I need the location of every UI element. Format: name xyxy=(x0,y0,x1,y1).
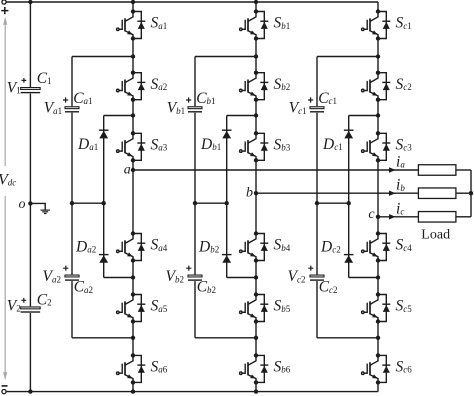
svg-text:C2: C2 xyxy=(37,292,52,309)
label + (Ca2 polarity) xyxy=(63,266,68,271)
junction node c2 xyxy=(376,113,380,117)
svg-text:Sa6: Sa6 xyxy=(151,359,168,376)
junction node b1 xyxy=(254,54,258,58)
junction node b4 xyxy=(254,336,258,340)
transistor S_c2 (S_c2) xyxy=(362,73,391,100)
label + (Ca1 polarity) xyxy=(63,97,68,102)
wire phase a leg xyxy=(132,2,134,392)
wire node c2 to Dc1 branch xyxy=(349,115,378,117)
junction node a4 xyxy=(131,336,135,340)
svg-text:Db2: Db2 xyxy=(198,239,219,256)
resistor load phase a xyxy=(418,165,456,176)
junction node a2 xyxy=(131,113,135,117)
wire load neutral vertical xyxy=(470,170,472,217)
wire node a4 to Ca2 branch xyxy=(72,337,133,339)
svg-text:Cc1: Cc1 xyxy=(318,90,337,107)
junction node b3 xyxy=(254,275,258,279)
svg-text:Sb1: Sb1 xyxy=(274,15,291,32)
svg-text:Sc1: Sc1 xyxy=(396,15,412,32)
svg-text:Ca1: Ca1 xyxy=(73,90,92,107)
diode Db1 xyxy=(222,129,232,131)
label + (C2 polarity) xyxy=(21,298,26,303)
terminal DC- (open circle) xyxy=(2,390,6,394)
wire flying-cap midpoint c xyxy=(317,202,349,204)
resistor load phase c xyxy=(418,212,456,223)
wire clamping-diode branch c xyxy=(348,116,350,278)
svg-text:Sa5: Sa5 xyxy=(151,298,168,315)
svg-text:Sa3: Sa3 xyxy=(151,136,168,153)
transistor S_c3 (S_c3) xyxy=(362,133,391,160)
capacitor Cc1 xyxy=(310,107,324,109)
svg-text:Da1: Da1 xyxy=(77,136,98,153)
svg-text:Sc5: Sc5 xyxy=(396,298,413,315)
svg-text:Sb4: Sb4 xyxy=(274,237,291,254)
label + (Cc1 polarity) xyxy=(308,97,313,102)
capacitor Cb1 xyxy=(188,107,202,109)
label + (Cb1 polarity) xyxy=(186,97,191,102)
terminal DC+ (open circle) xyxy=(2,0,6,4)
node b (phase output) xyxy=(254,191,258,195)
label + (Cc2 polarity) xyxy=(308,266,313,271)
diode Da1 xyxy=(99,129,109,131)
wire node b2 to Db1 branch xyxy=(227,115,256,117)
junction midpoint a right xyxy=(102,201,106,205)
svg-text:Vb2: Vb2 xyxy=(166,268,184,285)
svg-text:Sc6: Sc6 xyxy=(396,359,413,376)
wire node b4 to Cb2 branch xyxy=(195,337,256,339)
wire node b3 to Db2 branch xyxy=(227,277,256,279)
capacitor Cb2 xyxy=(188,275,202,277)
junction midpoint c left xyxy=(315,201,319,205)
wire flying-capacitor branch a xyxy=(71,57,73,338)
junction phase b at top rail xyxy=(254,0,258,4)
junction node b2 xyxy=(254,113,258,117)
svg-text:Sb6: Sb6 xyxy=(274,359,291,376)
svg-text:Sb5: Sb5 xyxy=(274,298,291,315)
arrow Vdc measurement (gray) xyxy=(3,17,7,380)
svg-text:Vc1: Vc1 xyxy=(289,100,307,117)
transistor S_c6 (S_c6) xyxy=(362,355,391,382)
wire load a to neutral bus xyxy=(456,169,471,171)
wire phase a output line xyxy=(133,169,418,171)
node c (phase output) xyxy=(376,215,380,219)
wire node b1 to Cb1 branch xyxy=(195,56,256,58)
transistor S_b4 (S_b4) xyxy=(240,234,269,261)
svg-text:Sc2: Sc2 xyxy=(396,76,412,93)
wire node c1 to Cc1 branch xyxy=(317,56,378,58)
svg-text:Db1: Db1 xyxy=(200,136,221,153)
junction node a1 xyxy=(131,54,135,58)
capacitor C2 xyxy=(21,307,41,309)
svg-text:C1: C1 xyxy=(37,70,52,87)
svg-text:Vc2: Vc2 xyxy=(288,268,306,285)
svg-text:Ca2: Ca2 xyxy=(74,279,93,296)
svg-text:a: a xyxy=(124,162,131,177)
wire clamping-diode branch b xyxy=(226,116,228,278)
wire phase b leg xyxy=(255,2,257,392)
svg-text:Sc4: Sc4 xyxy=(396,237,413,254)
svg-text:Sa2: Sa2 xyxy=(151,76,168,93)
svg-text:Sc3: Sc3 xyxy=(396,136,413,153)
wire flying-capacitor branch b xyxy=(194,57,196,338)
svg-text:Dc1: Dc1 xyxy=(322,136,343,153)
wire flying-capacitor branch c xyxy=(316,57,318,338)
svg-text:Dc2: Dc2 xyxy=(320,239,341,256)
transistor S_c5 (S_c5) xyxy=(362,295,391,322)
svg-text:V1: V1 xyxy=(7,79,21,96)
diode Dc1 xyxy=(344,129,354,131)
svg-text:Cb2: Cb2 xyxy=(197,279,216,296)
svg-text:ic: ic xyxy=(396,200,404,217)
junction node c3 xyxy=(376,275,380,279)
transistor S_a4 (S_a4) xyxy=(117,234,146,261)
capacitor C1 xyxy=(21,88,41,90)
transistor S_b2 (S_b2) xyxy=(240,73,269,100)
svg-text:Vb1: Vb1 xyxy=(167,100,185,117)
label + (C1 polarity) xyxy=(22,78,27,83)
transistor S_a3 (S_a3) xyxy=(117,133,146,160)
transistor S_a2 (S_a2) xyxy=(117,73,146,100)
transistor S_a1 (S_a1) xyxy=(117,12,146,39)
wire load c to neutral bus xyxy=(456,216,471,218)
transistor S_c4 (S_c4) xyxy=(362,234,391,261)
diode Da2 xyxy=(99,254,109,256)
transistor S_c1 (S_c1) xyxy=(362,12,391,39)
wire top DC+ rail xyxy=(4,1,378,3)
svg-text:ib: ib xyxy=(396,177,405,194)
wire load b to neutral bus xyxy=(456,192,471,194)
diode Dc2 xyxy=(344,254,354,256)
wire node a2 to Da1 branch xyxy=(104,115,133,117)
wire bottom DC- rail xyxy=(4,391,378,393)
ground symbol xyxy=(41,210,50,213)
wire clamping-diode branch a xyxy=(103,116,105,278)
junction midpoint a left xyxy=(70,201,74,205)
wire phase c output line xyxy=(378,216,418,218)
wire node c3 to Dc2 branch xyxy=(349,277,378,279)
wire node c4 to Cc2 branch xyxy=(317,337,378,339)
svg-text:Va2: Va2 xyxy=(43,268,61,285)
transistor S_a6 (S_a6) xyxy=(117,355,146,382)
arrow i_c xyxy=(389,214,396,219)
wire flying-cap midpoint a xyxy=(72,202,104,204)
wire phase c leg xyxy=(377,2,379,392)
svg-text:o: o xyxy=(19,197,26,212)
junction phase b at bottom rail xyxy=(254,389,258,393)
transistor S_b1 (S_b1) xyxy=(240,12,269,39)
wire left DC bus xyxy=(29,2,31,87)
arrow i_b xyxy=(389,191,396,196)
wire node a3 to Da2 branch xyxy=(104,277,133,279)
wire node a1 to Ca1 branch xyxy=(72,56,133,58)
node a (phase output) xyxy=(131,168,135,172)
svg-text:Vdc: Vdc xyxy=(0,172,16,189)
svg-text:Sb2: Sb2 xyxy=(274,76,291,93)
junction node a3 xyxy=(131,275,135,279)
capacitor Cc2 xyxy=(310,275,324,277)
label - (DC minus) xyxy=(2,385,8,387)
transistor S_b5 (S_b5) xyxy=(240,295,269,322)
svg-text:Load: Load xyxy=(421,227,450,242)
svg-text:ia: ia xyxy=(396,154,405,171)
node o (DC midpoint) xyxy=(28,201,32,205)
svg-text:b: b xyxy=(246,185,253,200)
svg-text:Va1: Va1 xyxy=(44,100,62,117)
junction left bus bottom xyxy=(28,389,32,393)
svg-text:Sb3: Sb3 xyxy=(274,136,291,153)
transistor S_a5 (S_a5) xyxy=(117,295,146,322)
diode Db2 xyxy=(222,254,232,256)
transistor S_b6 (S_b6) xyxy=(240,355,269,382)
svg-text:V2: V2 xyxy=(7,297,21,314)
junction left bus top xyxy=(28,0,32,4)
transistor S_b3 (S_b3) xyxy=(240,133,269,160)
wire phase b output line xyxy=(256,192,418,194)
junction load neutral xyxy=(469,191,473,195)
arrow i_a xyxy=(389,167,396,172)
wire flying-cap midpoint b xyxy=(195,202,227,204)
svg-text:c: c xyxy=(368,207,375,222)
svg-text:Sa1: Sa1 xyxy=(151,15,168,32)
label + (DC plus) xyxy=(1,7,8,14)
junction node c1 xyxy=(376,54,380,58)
svg-text:Da2: Da2 xyxy=(75,239,96,256)
junction midpoint b right xyxy=(225,201,229,205)
wire o to ground xyxy=(30,203,45,209)
junction midpoint c right xyxy=(347,201,351,205)
junction phase a at top rail xyxy=(131,0,135,4)
capacitor Ca1 xyxy=(65,107,79,109)
svg-text:Sa4: Sa4 xyxy=(151,237,168,254)
svg-text:Cb1: Cb1 xyxy=(196,90,215,107)
junction midpoint b left xyxy=(193,201,197,205)
resistor load phase b xyxy=(418,188,456,199)
capacitor Ca2 xyxy=(65,275,79,277)
svg-text:Cc2: Cc2 xyxy=(319,279,338,296)
junction phase a at bottom rail xyxy=(131,389,135,393)
label + (Cb2 polarity) xyxy=(186,266,191,271)
junction node c4 xyxy=(376,336,380,340)
